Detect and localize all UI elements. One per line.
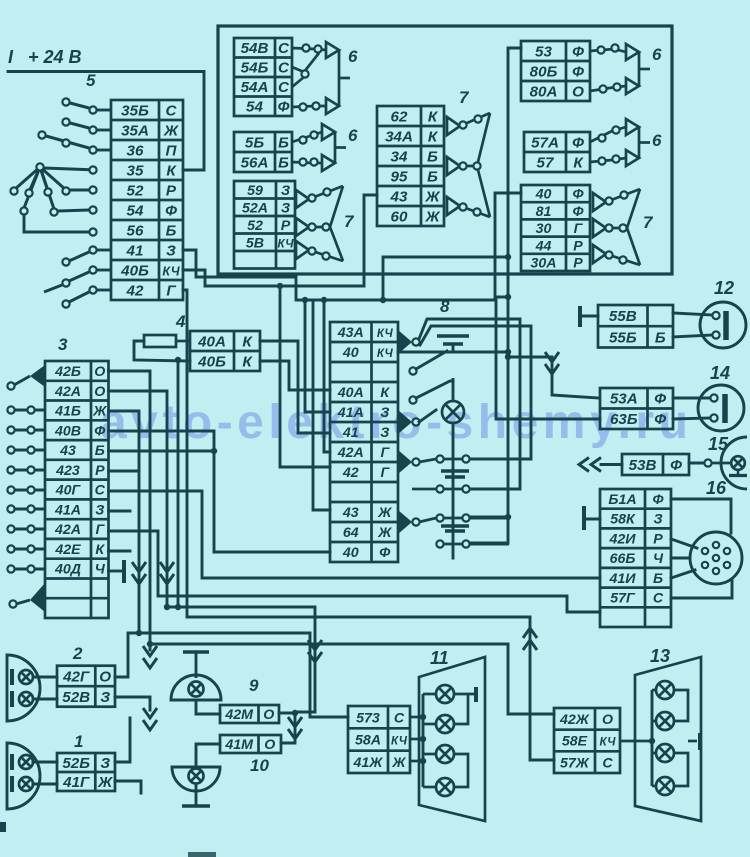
- junction 508,517: [505, 514, 511, 520]
- lamp10: [189, 769, 204, 784]
- svg-text:О: О: [99, 668, 111, 685]
- svg-text:42Г: 42Г: [62, 668, 90, 685]
- svg-text:53А: 53А: [610, 391, 638, 408]
- stub T12: [582, 315, 598, 318]
- svg-text:41Ж: 41Ж: [353, 755, 384, 771]
- svg-text:2: 2: [72, 644, 83, 663]
- T-bar lamp2b: [10, 691, 14, 707]
- ignition/light switch levers: [97, 109, 111, 112]
- svg-text:Р: Р: [573, 256, 583, 272]
- svg-text:С: С: [394, 710, 405, 726]
- svg-text:КЧ: КЧ: [600, 736, 617, 749]
- tail block15: [601, 463, 622, 466]
- wire 40B to 43Zh: [183, 195, 377, 286]
- branch 508 to 40KCh row: [398, 351, 508, 354]
- lamp13d: [656, 777, 674, 795]
- wire y300 branch to block8 41A: [305, 300, 330, 412]
- contact rows block8: [436, 455, 443, 462]
- wire lamp1a: [33, 761, 57, 764]
- wire 66B to socket: [671, 557, 690, 560]
- svg-text:63Б: 63Б: [610, 411, 638, 428]
- svg-text:З: З: [281, 183, 290, 199]
- svg-text:41А: 41А: [337, 405, 364, 421]
- svg-text:57А: 57А: [531, 135, 559, 152]
- svg-text:40: 40: [342, 545, 359, 561]
- T-bar ground near block3: [122, 560, 126, 583]
- svg-text:10: 10: [250, 756, 269, 775]
- svg-text:Ж: Ж: [424, 189, 440, 206]
- wire fuse40B to block8 40A: [260, 361, 330, 390]
- junction 508,352: [505, 349, 511, 355]
- svg-text:Ж: Ж: [377, 525, 392, 541]
- headlamp housing block1: [7, 743, 40, 809]
- svg-text:Б: Б: [655, 329, 666, 346]
- connector block 4: [190, 331, 260, 371]
- svg-text:О: О: [94, 364, 105, 380]
- speaker symbol 6a: [326, 42, 350, 114]
- circle on 55V wire: [712, 312, 719, 319]
- connector block 3: [45, 361, 109, 618]
- wire y607 to lamp9 riser: [167, 607, 315, 712]
- svg-text:40А: 40А: [197, 334, 226, 351]
- wire tri1 upper loop: [419, 319, 520, 489]
- svg-text:6: 6: [652, 45, 662, 64]
- svg-text:О: О: [94, 384, 105, 400]
- svg-text:40В: 40В: [54, 423, 81, 439]
- svg-text:5В: 5В: [246, 235, 264, 251]
- junction 178,607: [175, 604, 181, 610]
- svg-text:С: С: [602, 755, 613, 771]
- lamp wiring block13: [651, 690, 654, 786]
- wire lamp1b: [33, 783, 57, 786]
- wire y644 to 42Zh: [150, 644, 554, 714]
- svg-text:59: 59: [247, 183, 263, 199]
- svg-text:4: 4: [175, 312, 186, 331]
- blade lower: [416, 381, 453, 398]
- svg-text:54А: 54А: [241, 79, 269, 96]
- svg-text:54Б: 54Б: [241, 60, 269, 77]
- wire 53V to lamp: [689, 462, 703, 465]
- svg-text:40Б: 40Б: [120, 263, 149, 280]
- svg-text:Ч: Ч: [653, 551, 664, 567]
- svg-text:55Б: 55Б: [609, 329, 637, 346]
- svg-text:34: 34: [391, 149, 408, 166]
- edge mark left: [0, 822, 6, 832]
- svg-text:З: З: [100, 755, 110, 772]
- wire 40F row to trunk: [495, 193, 521, 297]
- svg-text:58Е: 58Е: [562, 734, 588, 750]
- junction 295,713: [292, 710, 298, 716]
- svg-text:64: 64: [343, 525, 359, 541]
- T-bar lamp1b: [10, 776, 14, 792]
- socket symbol block12: [700, 302, 746, 348]
- lamp9: [189, 682, 204, 697]
- svg-text:Р: Р: [166, 183, 177, 200]
- branch trunk to 53A: [508, 357, 598, 398]
- svg-text:43: 43: [390, 189, 408, 206]
- svg-text:Ч: Ч: [95, 562, 106, 578]
- lamp11a: [436, 685, 454, 703]
- svg-text:66Б: 66Б: [610, 551, 636, 567]
- svg-text:54: 54: [127, 203, 144, 220]
- lamp cluster symbol 7c: [593, 189, 640, 265]
- wire branch to 63B: [383, 300, 600, 419]
- svg-text:Ф: Ф: [652, 492, 664, 508]
- svg-text:КЧ: КЧ: [391, 735, 408, 748]
- svg-text:40Г: 40Г: [55, 483, 82, 499]
- svg-text:57: 57: [537, 155, 555, 172]
- junction 508,357: [505, 354, 511, 360]
- svg-text:Г: Г: [95, 522, 105, 538]
- arrow down on block14 feed: [545, 352, 559, 374]
- wires to speaker 6a: [292, 48, 326, 50]
- svg-text:34А: 34А: [385, 129, 413, 146]
- svg-text:80Б: 80Б: [530, 64, 558, 81]
- svg-text:С: С: [653, 591, 664, 607]
- svg-text:Б: Б: [278, 155, 289, 172]
- trunk vertical 508: [470, 48, 521, 543]
- svg-text:58К: 58К: [610, 512, 636, 528]
- svg-text:1: 1: [74, 732, 83, 751]
- wire 42B-O down bus: [109, 371, 151, 644]
- connector block 2: [57, 666, 115, 707]
- lamp wiring block11: [422, 694, 425, 787]
- svg-text:Ф: Ф: [670, 457, 682, 474]
- svg-text:43: 43: [342, 505, 359, 521]
- junction 150,644: [147, 641, 153, 647]
- svg-text:Б: Б: [427, 169, 438, 186]
- svg-text:42: 42: [342, 465, 359, 481]
- svg-text:К: К: [95, 542, 105, 558]
- svg-text:57Ж: 57Ж: [560, 755, 590, 771]
- svg-text:6: 6: [348, 47, 358, 66]
- wires to speaker 6c: [590, 49, 626, 52]
- wire y286 branch to block8 42G: [280, 286, 330, 467]
- svg-text:30: 30: [536, 221, 552, 237]
- svg-text:С: С: [278, 79, 290, 96]
- wire y300 branch to block8 42A: [324, 300, 330, 452]
- svg-text:56: 56: [127, 223, 144, 240]
- headlamp housing block2: [7, 655, 40, 721]
- wire 43B stub: [109, 450, 215, 453]
- svg-text:53: 53: [535, 44, 552, 61]
- blade upper: [416, 351, 447, 369]
- svg-text:З: З: [100, 689, 110, 706]
- wire 41A-Z stub: [109, 510, 131, 513]
- wire fuse to 40B row: [134, 341, 190, 361]
- panel block13: [635, 657, 701, 821]
- wire y300 branch to block8 43Zh: [313, 300, 330, 510]
- svg-text:З: З: [380, 405, 389, 421]
- connector 62 group: [377, 106, 444, 226]
- svg-text:О: О: [572, 84, 584, 101]
- panel block11: [419, 657, 485, 821]
- wire 57G to socket: [671, 581, 732, 598]
- svg-text:15: 15: [708, 434, 729, 454]
- circle on 53V wire: [704, 459, 711, 466]
- svg-text:Ф: Ф: [572, 44, 584, 61]
- svg-text:81: 81: [536, 204, 552, 220]
- svg-text:С: С: [166, 103, 178, 120]
- svg-text:5: 5: [86, 71, 96, 90]
- svg-text:Ф: Ф: [165, 203, 177, 220]
- wire 41Z to trunk: [183, 250, 508, 300]
- svg-text:55В: 55В: [609, 308, 637, 325]
- T-bar lamp2a: [10, 669, 14, 685]
- arrow stub below 150,644: [149, 644, 152, 650]
- svg-text:35Б: 35Б: [121, 103, 149, 120]
- wire 40V-F to block8 40F: [109, 431, 331, 552]
- svg-text:7: 7: [643, 213, 654, 232]
- svg-text:423: 423: [55, 463, 80, 479]
- svg-text:Ф: Ф: [654, 391, 666, 408]
- lamp11b: [436, 715, 454, 733]
- svg-text:Р: Р: [95, 463, 105, 479]
- svg-text:12: 12: [714, 278, 734, 298]
- svg-text:52: 52: [127, 183, 144, 200]
- branch 508 to row C: [470, 516, 508, 519]
- svg-text:8: 8: [440, 297, 450, 316]
- svg-text:53В: 53В: [629, 457, 657, 474]
- wire B1A over socket: [671, 499, 731, 533]
- svg-text:42А: 42А: [54, 522, 81, 538]
- capacitor bars block8: [441, 469, 469, 472]
- svg-text:Ж: Ж: [391, 755, 406, 771]
- wire 55V to socket: [673, 313, 712, 315]
- lamp13a: [656, 681, 674, 699]
- svg-text:11: 11: [430, 648, 449, 668]
- svg-text:П: П: [166, 143, 178, 160]
- svg-text:Ф: Ф: [572, 135, 584, 152]
- contact circle 40A row: [409, 396, 416, 403]
- svg-text:41М: 41М: [224, 737, 254, 753]
- connector 40 group: [521, 185, 590, 271]
- connector block 9: [220, 705, 279, 723]
- signal lamp in block8: [442, 401, 464, 423]
- svg-text:Ф: Ф: [572, 204, 584, 220]
- connector block 16: [600, 489, 671, 627]
- svg-text:Г: Г: [380, 445, 390, 461]
- arrow up on 530 wire: [523, 628, 537, 650]
- circle on 53A wire: [710, 394, 717, 401]
- circle on 55B wire: [712, 331, 719, 338]
- stub T16: [586, 518, 600, 521]
- svg-text:К: К: [380, 385, 390, 401]
- wire 52B up: [115, 718, 130, 762]
- svg-text:40: 40: [342, 345, 359, 361]
- speaker symbol 6b: [322, 124, 346, 171]
- svg-text:Р: Р: [653, 531, 663, 547]
- svg-text:5Б: 5Б: [245, 135, 264, 152]
- svg-text:Б: Б: [278, 135, 289, 152]
- svg-text:573: 573: [356, 710, 380, 726]
- svg-text:35А: 35А: [121, 123, 149, 140]
- wire y633 to block11: [139, 633, 348, 717]
- svg-text:95: 95: [391, 169, 408, 186]
- svg-text:41Б: 41Б: [54, 404, 81, 420]
- junction 324,300: [321, 297, 327, 303]
- wire lamp2a: [33, 676, 57, 679]
- svg-text:52В: 52В: [62, 689, 90, 706]
- wire 42A-G to 57G: [109, 531, 601, 612]
- lamp13b: [656, 712, 674, 730]
- wire 40D-Ch to T-bar: [109, 570, 122, 573]
- lamp2a: [19, 670, 33, 684]
- svg-text:Г: Г: [380, 465, 390, 481]
- svg-text:Ж: Ж: [377, 505, 392, 521]
- lamp1b: [19, 777, 33, 791]
- wire 42E-K stub: [109, 550, 131, 553]
- T-bar block12: [578, 306, 582, 327]
- wire riser 295: [281, 712, 295, 743]
- svg-text:Ф: Ф: [572, 187, 584, 203]
- svg-text:3: 3: [58, 335, 68, 354]
- svg-text:I + 24 В: I + 24 В: [8, 47, 82, 67]
- arrow below 52V: [143, 708, 157, 730]
- svg-text:Р: Р: [281, 218, 291, 234]
- connector block 5: [111, 100, 183, 300]
- enclosure box (relay unit): [218, 26, 672, 274]
- connector block 12: [598, 305, 673, 348]
- svg-text:54: 54: [246, 99, 263, 116]
- svg-text:42Ж: 42Ж: [559, 712, 590, 728]
- svg-text:44: 44: [535, 238, 552, 254]
- lamp with holder block15: [721, 437, 747, 489]
- arrow on 315: [308, 640, 322, 662]
- svg-text:Г: Г: [574, 221, 584, 237]
- wire vertical 178: [177, 360, 180, 607]
- lamp11c: [436, 745, 454, 763]
- junction 167,607: [164, 604, 170, 610]
- svg-text:41: 41: [126, 243, 144, 260]
- svg-text:80А: 80А: [530, 84, 558, 101]
- svg-text:52: 52: [247, 218, 263, 234]
- wire 41I to socket: [671, 570, 695, 578]
- svg-text:Б1А: Б1А: [608, 492, 636, 508]
- svg-text:Б: Б: [427, 149, 438, 166]
- svg-text:С: С: [95, 483, 106, 499]
- svg-text:КЧ: КЧ: [377, 347, 394, 360]
- pins of block 3: [14, 409, 45, 412]
- svg-text:О: О: [602, 712, 613, 728]
- wire 42M right: [279, 712, 295, 715]
- svg-text:30А: 30А: [530, 256, 556, 272]
- svg-text:40Б: 40Б: [197, 354, 226, 371]
- wire lamp10 to 41M: [196, 744, 220, 767]
- svg-text:Б: Б: [166, 223, 177, 240]
- svg-text:Ф: Ф: [654, 411, 666, 428]
- wires to speaker 6d: [590, 127, 626, 142]
- arrow down on V139: [132, 562, 146, 584]
- svg-text:Р: Р: [573, 238, 583, 254]
- svg-text:КЧ: КЧ: [162, 265, 180, 279]
- svg-text:С: С: [278, 40, 290, 57]
- junction 508,297: [505, 294, 511, 300]
- wire 42A-O down: [109, 391, 168, 607]
- svg-text:58А: 58А: [355, 733, 381, 749]
- wire 40G-S to 41I: [109, 491, 601, 578]
- lamp13c: [656, 744, 674, 762]
- svg-text:54В: 54В: [241, 40, 269, 57]
- junction 305,300: [302, 297, 308, 303]
- svg-text:40Д: 40Д: [54, 562, 81, 578]
- wire lamp9 to 42M: [196, 700, 220, 714]
- dome lamp block9: [183, 650, 209, 653]
- svg-text:7: 7: [344, 212, 355, 231]
- svg-text:7: 7: [459, 88, 470, 107]
- svg-text:Ж: Ж: [92, 404, 107, 420]
- svg-text:52Б: 52Б: [62, 755, 90, 772]
- svg-text:Г: Г: [166, 283, 176, 300]
- arrow down on V167: [160, 562, 174, 584]
- connector 56 group: [234, 132, 292, 172]
- svg-text:Ф: Ф: [572, 64, 584, 81]
- svg-text:Ж: Ж: [97, 774, 113, 791]
- svg-text:41А: 41А: [54, 502, 81, 518]
- svg-text:С: С: [278, 60, 290, 77]
- arrow down at 150: [143, 646, 157, 668]
- svg-text:О: О: [263, 707, 274, 723]
- wire tri2 slant: [419, 410, 436, 422]
- junction at 280,286: [277, 283, 283, 289]
- svg-text:40А: 40А: [337, 385, 364, 401]
- svg-text:42Б: 42Б: [54, 364, 81, 380]
- svg-text:42: 42: [126, 283, 144, 300]
- svg-text:6: 6: [348, 126, 358, 145]
- svg-text:40: 40: [535, 187, 552, 203]
- svg-text:13: 13: [650, 646, 670, 666]
- wire 423R stub: [109, 470, 140, 473]
- edge smudge bottom: [188, 852, 216, 857]
- svg-text:14: 14: [710, 363, 730, 383]
- wires to speaker 6b: [292, 132, 322, 142]
- svg-text:З: З: [653, 512, 662, 528]
- speaker symbol 6d: [626, 119, 650, 166]
- svg-text:42А: 42А: [337, 445, 364, 461]
- connector 59 group: [234, 181, 295, 269]
- T-bar block16: [582, 506, 586, 530]
- svg-text:Ф: Ф: [278, 99, 290, 116]
- svg-text:Б: Б: [653, 571, 663, 587]
- svg-text:О: О: [264, 737, 275, 753]
- svg-text:41Г: 41Г: [62, 774, 90, 791]
- connector block 15: [622, 454, 689, 475]
- junction at 383,300: [380, 297, 386, 303]
- wire +24V bus: [8, 72, 204, 171]
- wire 53A to socket: [673, 397, 710, 400]
- svg-text:43: 43: [59, 443, 76, 459]
- wire tri1 lower loop: [420, 326, 531, 459]
- speaker symbol 6c: [626, 44, 650, 94]
- dome lamp block10: [172, 767, 220, 791]
- svg-text:56А: 56А: [241, 155, 269, 172]
- contact circle empty row: [409, 367, 416, 374]
- svg-text:Ф: Ф: [94, 423, 106, 439]
- svg-text:42Е: 42Е: [54, 542, 81, 558]
- turn switch comb: [437, 334, 469, 337]
- connector block 14: [600, 388, 673, 429]
- lamp cluster symbol 7a: [296, 186, 343, 261]
- svg-text:КЧ: КЧ: [377, 327, 394, 340]
- circle on 63B wire: [710, 414, 717, 421]
- lamp cluster symbol 7b: [447, 113, 490, 217]
- svg-text:Б: Б: [95, 443, 105, 459]
- svg-text:9: 9: [249, 676, 259, 695]
- svg-text:42М: 42М: [224, 707, 254, 723]
- svg-text:Ж: Ж: [424, 209, 440, 226]
- svg-text:З: З: [95, 502, 104, 518]
- svg-text:57Г: 57Г: [610, 591, 636, 607]
